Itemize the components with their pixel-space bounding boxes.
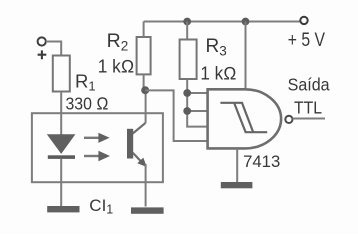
wire: +5V rail down to gate <box>245 22 247 90</box>
wire: input terminal to R1 top <box>46 42 61 56</box>
top +5V rail <box>144 21 301 23</box>
junction dot (rail / gate top wire) <box>242 18 250 26</box>
plus polarity mark <box>38 50 47 59</box>
ground (under emitter) <box>131 207 164 213</box>
wire: LED cathode to ground <box>60 159 62 207</box>
wire: R2 bottom to node <box>143 74 145 90</box>
wire: R1 bottom into optocoupler to LED anode <box>60 92 62 136</box>
wire: R3 bottom down to 3rd gate input <box>187 79 207 127</box>
svg-text:330 Ω: 330 Ω <box>66 94 109 114</box>
input terminal (+) <box>38 37 46 45</box>
ground (under gate) <box>221 182 253 188</box>
Schmitt hysteresis symbol <box>220 103 267 132</box>
LED (inside optocoupler) <box>48 135 75 153</box>
wire: gate input 2 <box>187 110 207 112</box>
svg-text:CI1: CI1 <box>89 196 113 216</box>
junction dot (input 2) <box>183 107 191 115</box>
svg-text:R1: R1 <box>75 70 96 93</box>
svg-text:1 kΩ: 1 kΩ <box>200 64 236 84</box>
resistor R1 <box>53 56 70 92</box>
wire: rail to R3 top <box>186 22 188 40</box>
junction dot (input 1) <box>183 89 191 97</box>
NAND gate U1 (7413) body <box>208 89 282 148</box>
svg-text:1 kΩ: 1 kΩ <box>98 57 135 77</box>
optocoupler box CI1 <box>32 113 163 182</box>
output wire <box>293 118 326 120</box>
resistor R2 <box>137 37 151 74</box>
wire: collector up to R2 node <box>145 90 147 123</box>
junction dot (rail / R3) <box>183 18 191 26</box>
wire: phototransistor emitter to ground <box>145 164 147 207</box>
svg-text:R2: R2 <box>107 30 129 53</box>
svg-text:TTL: TTL <box>294 98 322 118</box>
junction dot (R2 / collector node) <box>141 86 149 94</box>
light arrow 2 <box>84 155 99 157</box>
light arrow 1 <box>84 137 99 139</box>
wire: R2 top to rail <box>143 22 145 38</box>
ground (under LED) <box>47 206 79 212</box>
+5V terminal <box>300 17 307 24</box>
output bubble <box>285 116 292 123</box>
svg-text:7413: 7413 <box>243 153 280 171</box>
wire: gate input 1 <box>187 92 207 94</box>
resistor R3 <box>180 40 197 80</box>
wire: R2 node to gate input 4 <box>145 90 207 141</box>
wire: gate bottom to ground <box>236 148 238 182</box>
svg-text:+ 5 V: + 5 V <box>288 30 325 51</box>
svg-text:Saída: Saída <box>288 74 330 94</box>
phototransistor (inside optocoupler) <box>127 129 133 159</box>
svg-text:R3: R3 <box>206 36 227 59</box>
